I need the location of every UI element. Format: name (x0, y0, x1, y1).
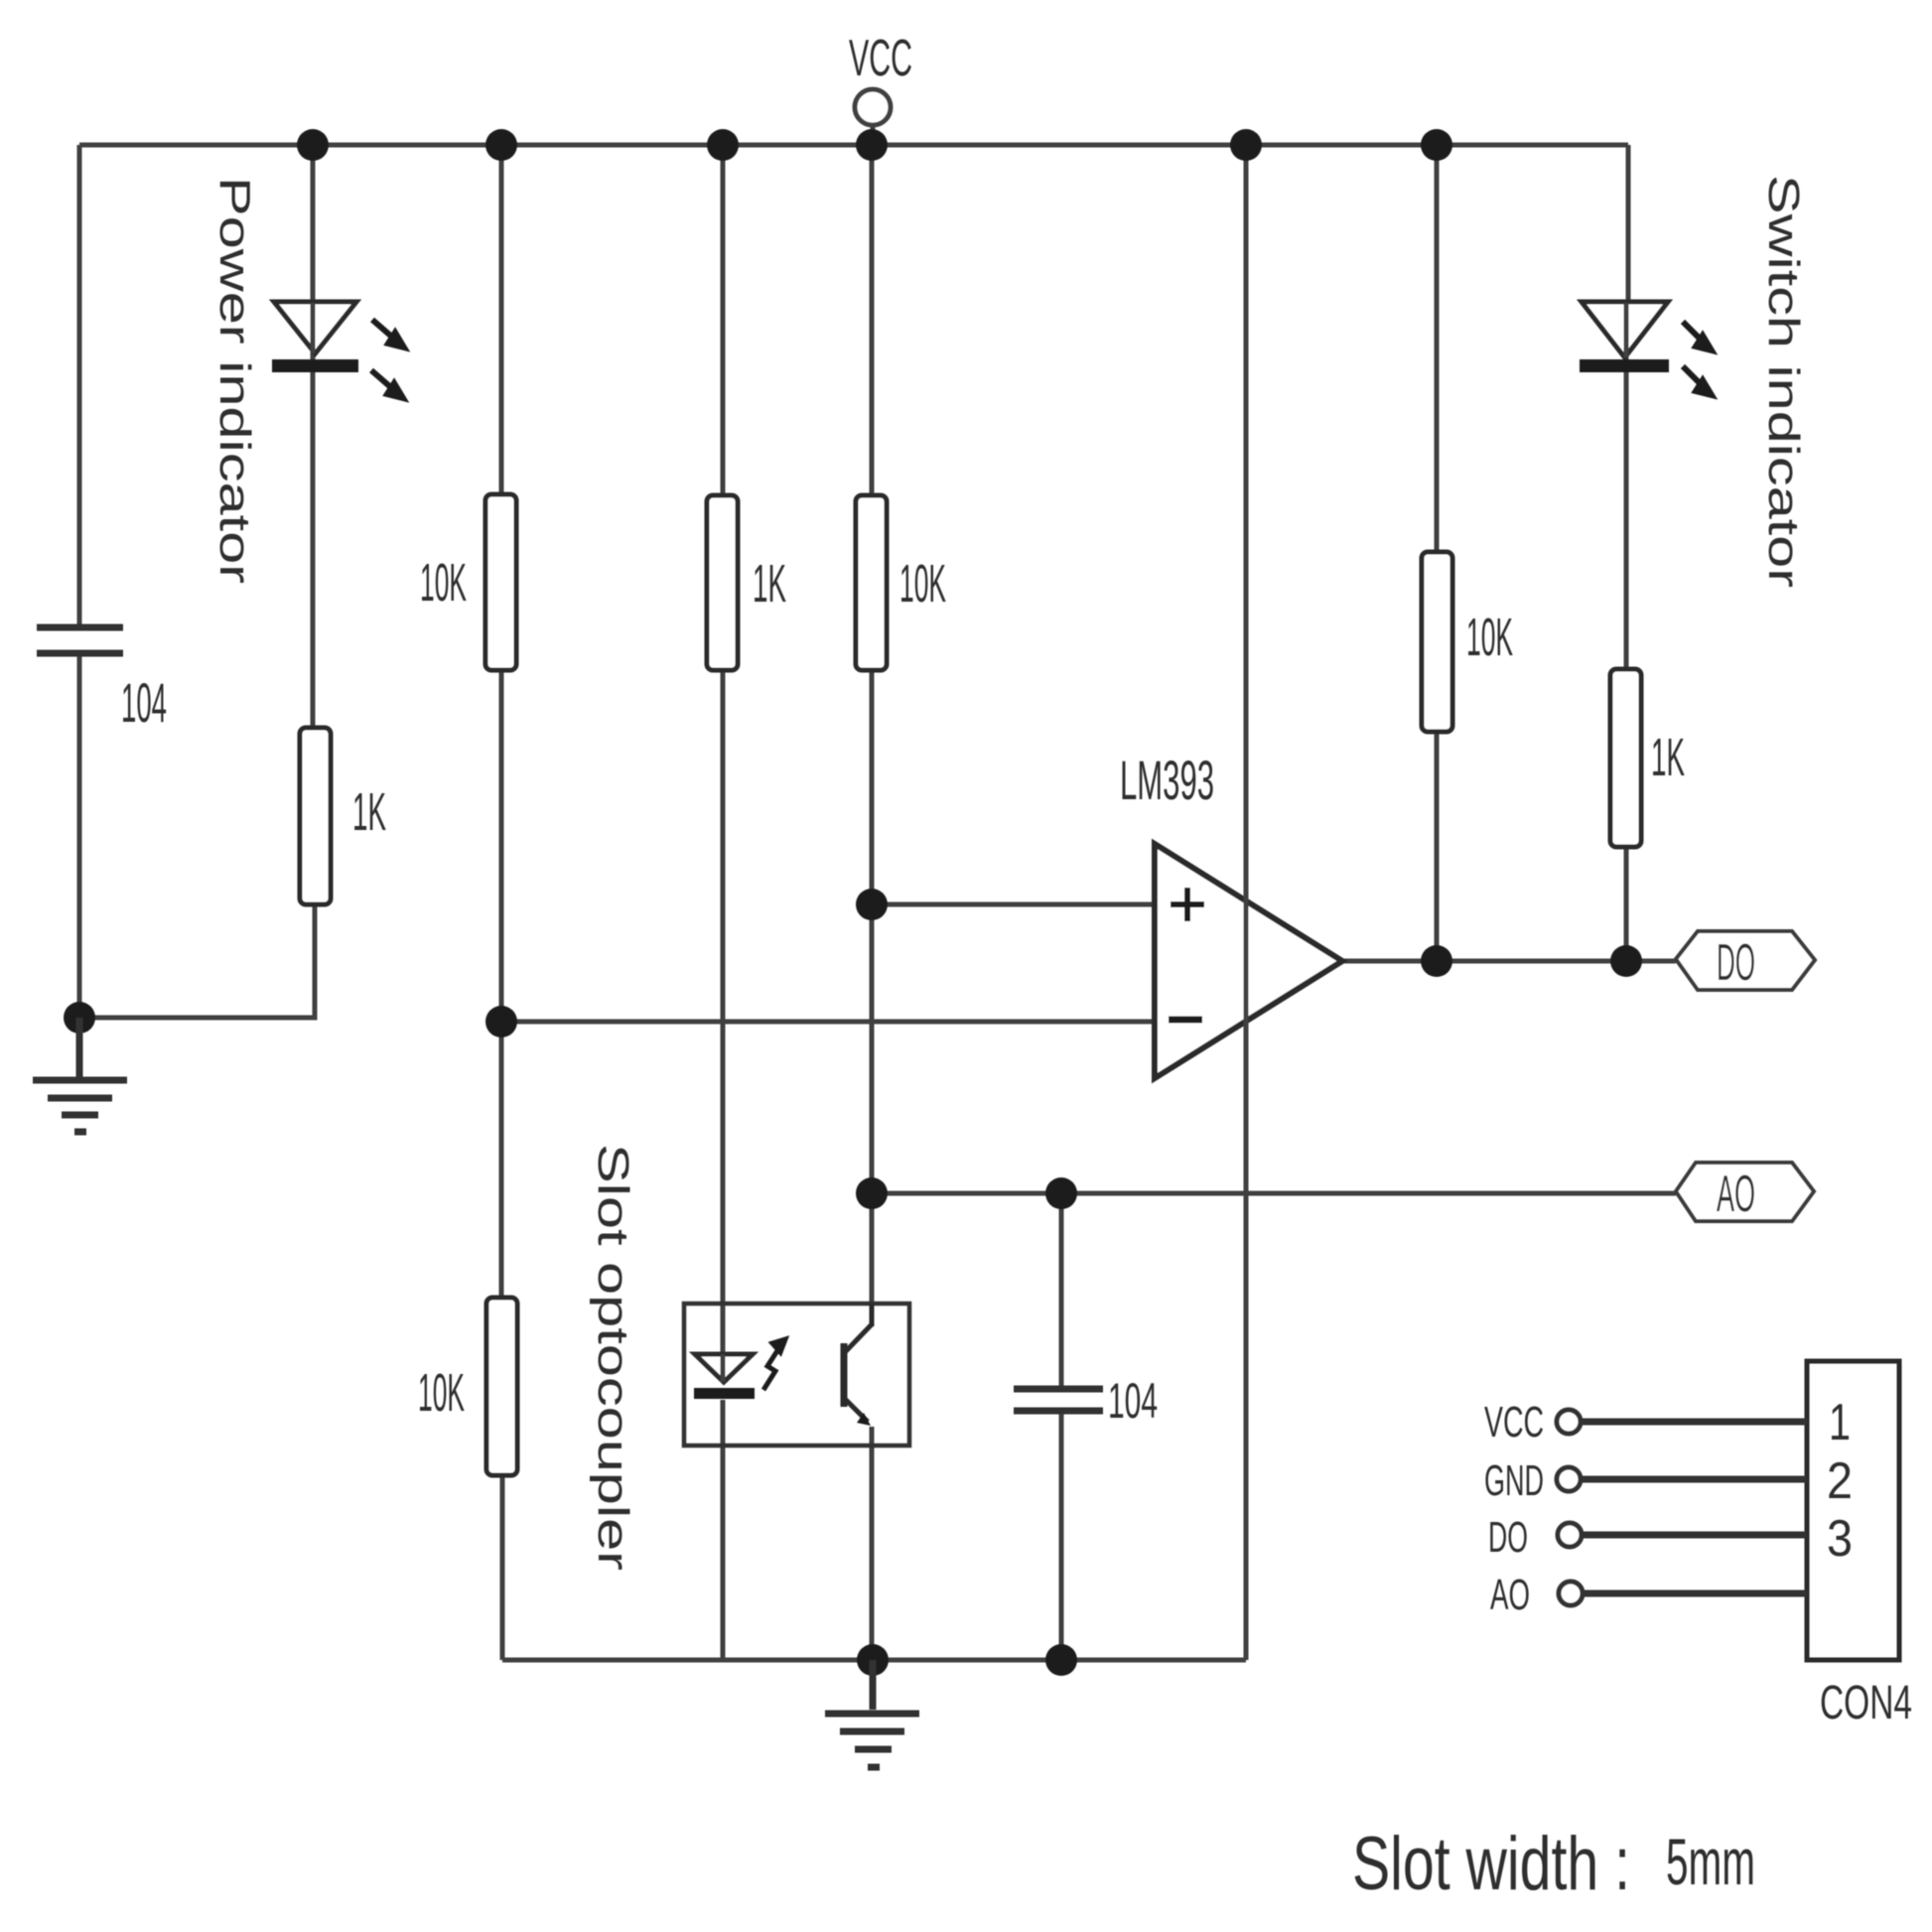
wire left vertical (top rail to cap) (77, 145, 82, 627)
svg-text:Switch indicator: Switch indicator (1759, 175, 1808, 588)
wire power LED to R 1K (311, 353, 316, 728)
capacitor C1 104 (left) (37, 627, 123, 653)
wire right LED down (1624, 303, 1629, 372)
resistor R7 1K (switch LED) (1610, 669, 1641, 847)
light arrow (763, 1339, 785, 1390)
wire right 10K to DO line (1435, 732, 1440, 961)
svg-text:104: 104 (1108, 1373, 1158, 1429)
wire AO line (872, 1191, 1676, 1196)
wire lower 10K to bottom rail (500, 1475, 505, 1660)
svg-text:Slot width :: Slot width : (1352, 1822, 1630, 1906)
svg-text:1: 1 (1829, 1394, 1851, 1451)
wire 10K branch top (499, 145, 504, 494)
svg-text:Slot optocoupler: Slot optocoupler (589, 1144, 637, 1571)
capacitor C2 104 (filter) (1014, 1389, 1103, 1411)
wire left vertical (cap to ground node) (77, 653, 82, 1018)
svg-text:10K: 10K (418, 1363, 465, 1423)
wire right LED to 1K (1624, 372, 1629, 669)
optocoupler phototransistor Q1 (844, 1304, 872, 1426)
wire minus input line (501, 1020, 1155, 1025)
node junction dots on top rail (64, 129, 1642, 1676)
wire right 10K branch (1435, 145, 1440, 552)
svg-text:CON4: CON4 (1820, 1677, 1912, 1729)
svg-text:GND: GND (1484, 1456, 1544, 1505)
node AO junction (856, 1177, 888, 1209)
svg-text:1K: 1K (1651, 728, 1685, 787)
resistor R2 10K (divider top) (485, 494, 516, 670)
svg-text:AO: AO (1490, 1571, 1530, 1619)
svg-text:1K: 1K (352, 782, 386, 842)
ground bottom (emitter) (825, 1660, 919, 1767)
net tag AO (1676, 1163, 1814, 1221)
wire AO cap branch down (1059, 1193, 1064, 1386)
resistor R4 1K (opto LED) (707, 495, 738, 670)
node plus input junction (856, 889, 888, 920)
svg-text:DO: DO (1488, 1513, 1528, 1562)
wire VCC branch top (870, 145, 875, 495)
wire R1K bottom stub (313, 904, 318, 1018)
wire bottom-left horizontal to 1K (79, 904, 315, 1018)
pin plus sign (1171, 888, 1204, 921)
resistor R3 10K (divider bottom) (486, 1298, 517, 1475)
wire VCC 10K down to opto collector (870, 670, 875, 1321)
node minus divider junction (485, 1006, 517, 1037)
svg-text:VCC: VCC (849, 30, 912, 87)
wire 1K mid down into opto LED (721, 670, 726, 1354)
svg-text:10K: 10K (899, 554, 946, 614)
wire DO output line (1342, 959, 1676, 964)
svg-text:AO: AO (1717, 1166, 1755, 1223)
svg-text:VCC: VCC (1484, 1398, 1544, 1447)
resistor R6 10K (DO pull-up) (1422, 552, 1452, 732)
node VCC terminal circle (855, 89, 891, 125)
net tag DO (1676, 931, 1815, 990)
connector CON4 box (1807, 1361, 1899, 1660)
pin minus sign (1169, 1017, 1202, 1024)
wire 10K bottom to lower 10K (499, 670, 504, 1298)
svg-text:LM393: LM393 (1120, 749, 1214, 811)
optocoupler U2 box (684, 1304, 909, 1446)
ground left (33, 1018, 127, 1132)
resistor R1 1K (power LED) (300, 728, 331, 904)
wire comparator supply vertical (1244, 145, 1249, 1660)
wire power LED branch top (311, 145, 316, 303)
op-amp U1 LM393 (1155, 844, 1342, 1078)
svg-text:2: 2 (1827, 1452, 1853, 1510)
node left ground junction (64, 1002, 95, 1034)
svg-text:DO: DO (1717, 934, 1755, 992)
svg-text:10K: 10K (420, 553, 467, 613)
svg-text:3: 3 (1827, 1510, 1853, 1568)
svg-text:10K: 10K (1466, 608, 1513, 667)
svg-text:104: 104 (121, 671, 167, 734)
wire plus input line (872, 902, 1155, 907)
LED D1 power indicator (272, 302, 404, 398)
wire 1K mid branch top (721, 145, 726, 495)
svg-text:5mm: 5mm (1666, 1825, 1755, 1898)
wire right 1K to DO line (1624, 847, 1629, 961)
node AO cap junction (1045, 1177, 1077, 1209)
svg-text:Power indicator: Power indicator (210, 177, 259, 584)
node cap bottom junction (1045, 1644, 1077, 1676)
wire opto LED cathode to bottom rail (721, 1400, 726, 1660)
resistor R5 10K (collector pull-up) (856, 495, 887, 670)
wire right LED branch from rail (1626, 145, 1628, 303)
wire AO cap to bottom rail (1059, 1414, 1064, 1660)
node DO 1K junction (1610, 945, 1642, 977)
svg-text:1K: 1K (753, 554, 786, 614)
wire opto emitter down to bottom rail (870, 1427, 875, 1660)
wire bottom ground rail (502, 1658, 1246, 1663)
node DO 10K junction (1421, 945, 1452, 977)
optocoupler LED (694, 1339, 785, 1399)
node emitter ground junction (857, 1644, 889, 1676)
wire top VCC rail (79, 143, 1628, 148)
LED D2 switch indicator (1580, 302, 1712, 395)
